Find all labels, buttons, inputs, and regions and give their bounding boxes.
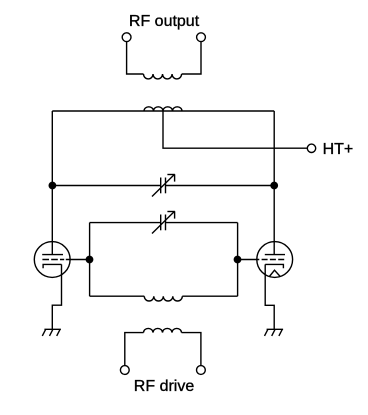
svg-text:RF drive: RF drive	[134, 378, 195, 395]
ground (left)	[42, 329, 61, 336]
inductor L1 (output link winding)	[144, 74, 182, 79]
node left anode junction	[49, 182, 55, 188]
node right grid junction	[234, 256, 240, 262]
valve V2 (right triode)	[257, 242, 293, 278]
wire right anode rail	[273, 111, 275, 255]
wire J2 to coil L1	[182, 42, 201, 74]
terminal J4 (RF drive right)	[197, 366, 206, 375]
capacitor C1 (variable, anode tuning)	[152, 174, 175, 196]
anode V1	[42, 254, 63, 256]
wire	[166, 185, 275, 187]
envelope	[257, 242, 293, 278]
anode V2	[265, 254, 285, 256]
wire grid loop bottom right	[182, 295, 237, 297]
wire centre tap to HT+	[163, 111, 307, 148]
wire V2 grid to loop	[238, 259, 260, 261]
inductor L4 (drive link winding)	[144, 328, 182, 332]
wire J1 to coil L1	[127, 42, 144, 74]
wire grid loop left side	[89, 223, 91, 297]
valve V1 (left triode)	[34, 242, 70, 278]
wire V1 cathode to ground	[52, 264, 61, 329]
grid V1 (dashed)	[42, 259, 64, 261]
wire neutralising rail	[52, 185, 160, 187]
terminal J3 (RF drive left)	[120, 366, 129, 375]
wire grid loop bottom left	[90, 295, 145, 297]
wire grid loop right side	[237, 223, 239, 297]
envelope	[34, 242, 70, 278]
ground (right)	[265, 329, 284, 336]
wire V1 grid to loop	[66, 259, 90, 261]
node left grid junction	[86, 256, 92, 262]
wire grid loop top right	[166, 222, 238, 224]
terminal J1 (RF output left)	[122, 33, 131, 42]
wire top anode rail	[52, 110, 274, 112]
wire grid loop top left	[90, 222, 161, 224]
svg-text:HT+: HT+	[323, 141, 354, 158]
cathode V1	[43, 264, 61, 268]
wire left anode rail	[51, 111, 53, 255]
terminal HT+	[307, 144, 315, 152]
wire L4 to J3	[125, 333, 144, 366]
wire V2 cathode to ground	[265, 264, 274, 329]
grid V2 (dashed)	[262, 259, 285, 261]
inductor L3 (grid coil)	[144, 296, 182, 301]
svg-text:RF output: RF output	[129, 13, 200, 30]
node right anode junction	[271, 182, 277, 188]
terminal J2 (RF output right)	[197, 33, 206, 42]
filament V2	[269, 270, 280, 276]
cathode V2	[265, 264, 283, 268]
capacitor C2 (variable, grid tuning)	[152, 211, 175, 233]
inductor L2 (tank coil, centre-tapped)	[144, 107, 182, 111]
wire L4 to J4	[182, 333, 201, 366]
